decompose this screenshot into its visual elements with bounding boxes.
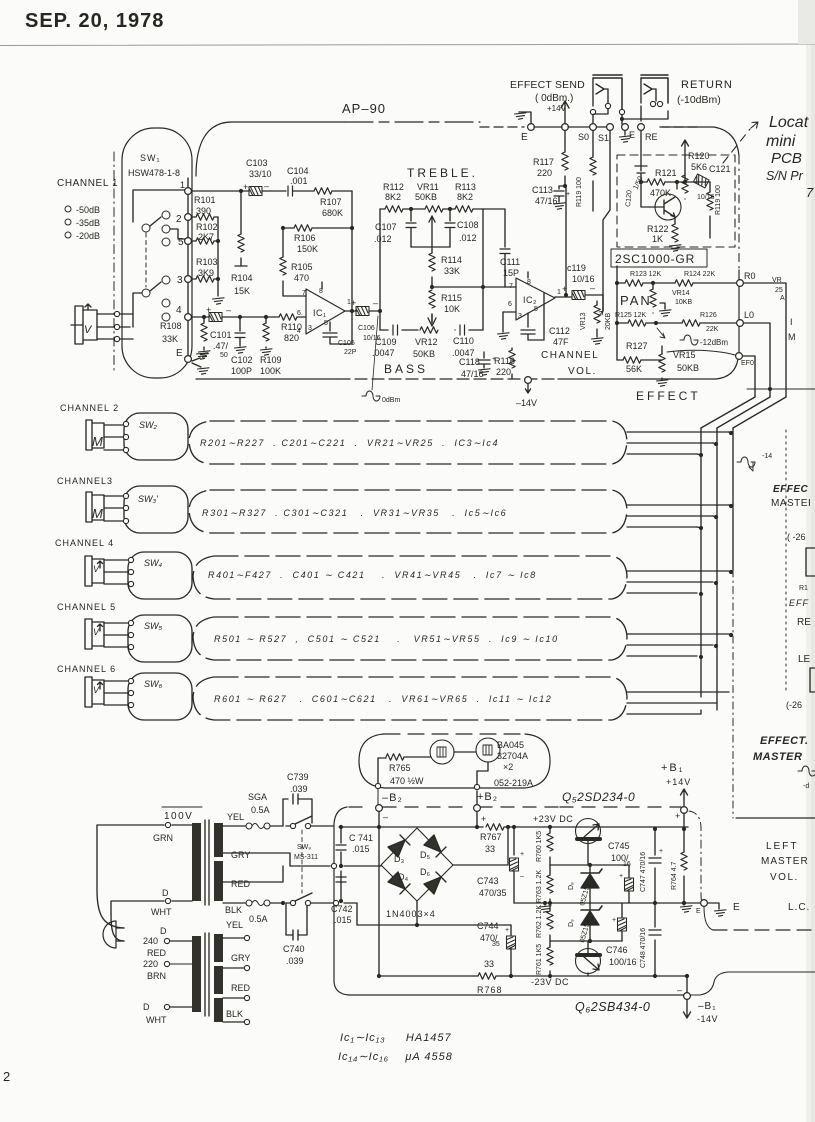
svg-text:8: 8 (527, 279, 531, 286)
R0 wire to right riser (744, 283, 786, 397)
svg-text:50KB: 50KB (415, 192, 437, 202)
svg-text:20KB: 20KB (605, 313, 612, 330)
svg-text:MASTER: MASTER (753, 751, 802, 763)
svg-text:470: 470 (294, 273, 309, 283)
svg-text:R127: R127 (626, 341, 648, 351)
power block bottom edge (349, 994, 684, 996)
svg-text:R760 1K5: R760 1K5 (536, 831, 543, 862)
transformer T2 secondary windings (214, 934, 223, 962)
svg-text:-50dB: -50dB (76, 205, 100, 215)
svg-text:R119 100: R119 100 (576, 177, 583, 207)
svg-text:4: 4 (176, 305, 182, 316)
svg-text:R120: R120 (688, 151, 710, 161)
svg-text:BRN: BRN (147, 971, 166, 981)
svg-text:2K7: 2K7 (198, 232, 214, 242)
WHT terminal (top transformer) (165, 898, 170, 903)
svg-text:15P: 15P (503, 268, 519, 278)
svg-text:CHANNEL: CHANNEL (541, 350, 599, 361)
wire C104 to R107 (293, 190, 314, 192)
riser diagonals to buses (701, 397, 786, 428)
VR15 wiper to EF0 (667, 350, 735, 355)
svg-text:C106: C106 (358, 325, 375, 332)
svg-text:V: V (93, 564, 100, 574)
svg-text:C107: C107 (375, 222, 397, 232)
svg-text:R105: R105 (291, 262, 313, 272)
svg-text:+: + (481, 814, 486, 824)
treble mid rail (411, 246, 450, 248)
breaker output wire (477, 762, 488, 804)
resistor R115 (429, 290, 435, 308)
svg-text:-d: -d (803, 783, 809, 790)
svg-text:C748 470/16: C748 470/16 (640, 928, 647, 968)
svg-text:R765: R765 (389, 763, 411, 773)
svg-text:SEP. 20, 1978: SEP. 20, 1978 (25, 10, 164, 32)
switch bank A pivot (142, 224, 150, 232)
svg-text:Ic₁₄∼Ic₁₆ μA 4558: Ic₁₄∼Ic₁₆ μA 4558 (338, 1051, 453, 1063)
0V return wire (344, 903, 511, 925)
svg-text:15K: 15K (234, 286, 250, 296)
transformer T1 primary winding (192, 823, 201, 901)
channel 2 output wires (627, 432, 729, 454)
svg-text:RED: RED (231, 879, 251, 889)
wire C103 to C104 (262, 190, 286, 192)
svg-text:R0: R0 (744, 271, 756, 281)
zener D9 (589, 903, 591, 909)
svg-text:.001: .001 (290, 176, 308, 186)
IC2 output wire (555, 295, 571, 297)
svg-text:SW₂: SW₂ (139, 420, 157, 430)
svg-text:(-26: (-26 (786, 700, 802, 710)
transformer T2 core (205, 933, 209, 1016)
svg-text:+: + (505, 927, 509, 934)
transistor Q5 (576, 819, 601, 844)
svg-text:3: 3 (308, 325, 312, 332)
svg-text:EFFEC: EFFEC (773, 484, 809, 495)
capacitor C112 (521, 293, 544, 340)
svg-text:+: + (566, 191, 570, 198)
svg-text:PAN: PAN (620, 293, 652, 308)
resistor R110 (279, 314, 297, 320)
svg-text:E: E (176, 348, 183, 359)
S1 wire down to VR13 wiper (603, 131, 610, 311)
svg-text:C120: C120 (625, 190, 633, 207)
svg-text:CHANNEL 4: CHANNEL 4 (55, 538, 114, 548)
AC plug (103, 921, 116, 948)
svg-text:V: V (93, 685, 100, 695)
svg-text:CHANNEL3: CHANNEL3 (57, 476, 113, 486)
svg-text:.039: .039 (286, 956, 304, 966)
svg-text:.015: .015 (352, 844, 370, 854)
svg-text:C110: C110 (453, 336, 474, 346)
node L0 (737, 320, 744, 327)
svg-text:4: 4 (297, 328, 301, 335)
channel 1 PCB outline bottom edge (196, 378, 338, 380)
svg-text:R117: R117 (533, 157, 554, 167)
svg-text:M: M (788, 332, 796, 342)
2SC1000 dashed enclosure (617, 155, 735, 247)
resistor R107 (314, 188, 332, 194)
svg-text:VOL.: VOL. (568, 366, 597, 377)
power block right corner (704, 907, 713, 930)
+23 rail to amp (508, 826, 688, 828)
capacitor C108 (449, 209, 451, 221)
svg-text:220: 220 (143, 959, 158, 969)
svg-text:R106: R106 (294, 233, 316, 243)
capacitor C111 (483, 209, 505, 247)
svg-text:C103: C103 (246, 158, 268, 168)
svg-text:A: A (780, 295, 785, 302)
potentiometer VR14 (652, 283, 654, 289)
bridge bottom drop (416, 901, 418, 925)
switch contact 1 wire (133, 190, 188, 222)
send jack wires down (593, 109, 622, 124)
L0 wire to right riser (744, 323, 770, 397)
+23V rail (339, 826, 483, 828)
svg-text:–: – (383, 812, 388, 822)
svg-text:220: 220 (537, 168, 552, 178)
svg-text:RED: RED (231, 983, 251, 993)
node S1 (607, 124, 614, 131)
svg-text:CHANNEL 6: CHANNEL 6 (57, 664, 116, 674)
mix bus L (716, 428, 718, 710)
plug wire to GRN (97, 825, 164, 928)
zener D8 (589, 865, 591, 873)
svg-text:3K9: 3K9 (198, 268, 214, 278)
transformer T1 secondary windings (214, 823, 223, 857)
svg-text:V: V (93, 627, 100, 637)
channel 4 block (193, 556, 627, 599)
svg-text:1K: 1K (652, 234, 663, 244)
svg-text:R401∼F427 . C401 ∼ C421 .: R401∼F427 . C401 ∼ C421 . VR41∼VR45 . Ic… (208, 570, 537, 580)
svg-text:D₃: D₃ (394, 854, 404, 864)
resistor R125 (617, 322, 628, 324)
wire C106 to tone stack (369, 310, 380, 312)
potentiometer VR13 (585, 295, 603, 311)
svg-text:+23V DC: +23V DC (533, 814, 573, 824)
svg-text:33: 33 (485, 844, 495, 854)
location note arrow (723, 129, 750, 163)
-12dBm annotation (657, 328, 665, 338)
channel 2 block (189, 421, 627, 464)
op-amp IC2 (516, 278, 555, 320)
svg-text:( -26: ( -26 (787, 532, 806, 542)
svg-text:1: 1 (557, 289, 561, 296)
svg-text:–: – (590, 283, 595, 293)
svg-text:Q₆2SB434-0: Q₆2SB434-0 (575, 1000, 650, 1014)
svg-text:+B₂: +B₂ (477, 791, 498, 803)
IC1 pin7 wire from R105 (305, 295, 307, 297)
jack tip wire to node (97, 314, 115, 339)
svg-text:C121: C121 (709, 164, 731, 174)
svg-text:CHANNEL 1: CHANNEL 1 (57, 178, 118, 189)
capacitor C109 (393, 325, 398, 335)
svg-text:R122: R122 (647, 224, 669, 234)
svg-text:–14V: –14V (516, 398, 537, 408)
channel 1 PCB outline right edge with output corner (662, 127, 739, 156)
svg-text:Locat: Locat (769, 114, 809, 131)
node E (sleeve) (622, 124, 629, 131)
svg-text:C102: C102 (231, 355, 253, 365)
channel 4 jack (85, 556, 104, 586)
svg-text:+: + (619, 873, 623, 880)
svg-text:5: 5 (178, 237, 184, 248)
Q5 emitter junction wires (550, 864, 629, 866)
svg-text:CHANNEL 2: CHANNEL 2 (60, 403, 119, 413)
svg-text:0.5A: 0.5A (251, 805, 270, 815)
node E (185, 356, 192, 363)
svg-text:240: 240 (143, 936, 158, 946)
tone stack right rail (482, 209, 484, 330)
svg-text:R115: R115 (441, 293, 462, 303)
svg-text:E: E (521, 132, 528, 143)
svg-text:R763 1.2K: R763 1.2K (536, 870, 543, 903)
node 3 (185, 276, 192, 283)
svg-text:S0: S0 (578, 132, 589, 142)
switch bank B pivot (142, 289, 150, 297)
svg-text:3: 3 (177, 275, 183, 286)
node +B1 (681, 807, 688, 814)
svg-text:R301∼R327 . C301∼C321 . VR: R301∼R327 . C301∼C321 . VR31∼VR35 . Ic5∼… (202, 508, 507, 518)
connector circles on left edge (331, 863, 336, 868)
svg-text:(-10dBm): (-10dBm) (677, 94, 721, 106)
svg-text:MS-311: MS-311 (294, 854, 318, 861)
power block top dashed rail (349, 806, 371, 808)
C741 column (340, 827, 342, 899)
svg-text:mini: mini (766, 133, 796, 150)
diode D5 (424, 835, 441, 852)
svg-text:IC₁: IC₁ (313, 308, 327, 318)
svg-text:SW₁: SW₁ (140, 153, 161, 163)
mid rail (0V) to amp (514, 902, 700, 904)
tone stack top rail (380, 208, 483, 210)
svg-text:R126: R126 (700, 312, 717, 319)
svg-text:SW₈: SW₈ (297, 844, 311, 851)
-B1 arrow (684, 1000, 691, 1018)
channel 4 output wires (627, 571, 729, 593)
resistor R126 (656, 322, 682, 324)
svg-text:C747 470/16: C747 470/16 (640, 852, 647, 892)
svg-text:C104: C104 (287, 166, 309, 176)
thermal breaker pill (384, 733, 525, 735)
channel 1 left chain boundary (113, 152, 115, 372)
bass bottom rail (380, 329, 483, 331)
channel 3 SW pill (124, 486, 188, 533)
+B1 arrow (681, 789, 688, 806)
node 1 (185, 188, 192, 195)
svg-text:VR12: VR12 (415, 337, 438, 347)
svg-text:1: 1 (180, 180, 185, 190)
-23 rail to amp (511, 975, 660, 977)
svg-text:C 741: C 741 (349, 833, 373, 843)
channel 6 output wires (627, 692, 729, 714)
plug wire to WHT (111, 901, 164, 941)
svg-text:D: D (143, 1002, 150, 1012)
svg-text:EFFECT: EFFECT (636, 389, 701, 403)
channel 6 SW pill (128, 673, 192, 720)
svg-text:5K6: 5K6 (691, 162, 707, 172)
svg-text:470/35: 470/35 (479, 888, 507, 898)
svg-text:C740: C740 (283, 944, 305, 954)
svg-text:R1: R1 (799, 585, 808, 592)
channel 3 output wires (627, 505, 729, 527)
svg-text:R113: R113 (455, 182, 476, 192)
header rule (0, 44, 815, 46)
svg-text:BLK: BLK (225, 905, 242, 915)
switch bank A contacts (162, 211, 170, 219)
mid-rail wire to C111/IC2 (432, 286, 516, 288)
svg-text:R124 22K: R124 22K (684, 271, 715, 278)
ground for attenuator bus (213, 298, 225, 304)
return tip wire (640, 106, 642, 121)
node -B1 (684, 993, 691, 1000)
svg-text:100P: 100P (231, 366, 252, 376)
input jack J1 (71, 304, 97, 344)
switch bank A blade (150, 217, 161, 226)
contact A2 wire to node 5 (170, 229, 186, 239)
breaker left drop to -B2 (375, 783, 380, 788)
svg-text:c119: c119 (567, 263, 586, 273)
svg-text:+: + (520, 851, 524, 858)
svg-text:M: M (92, 434, 103, 449)
svg-text:×2: ×2 (503, 762, 513, 772)
wires inside 2SC box (677, 175, 710, 182)
node 4 (185, 314, 192, 321)
svg-text:RED: RED (147, 948, 167, 958)
C747 capacitor (654, 829, 656, 903)
dashed boundary right of RE (660, 126, 700, 128)
svg-text:VOL.: VOL. (770, 872, 799, 883)
R763 resistor (549, 865, 551, 875)
-23 rail to -B1 (660, 976, 687, 992)
svg-text:C105: C105 (338, 340, 355, 347)
svg-text:47/16: 47/16 (461, 369, 484, 379)
svg-text:-14: -14 (762, 453, 772, 460)
attenuator junction bus (217, 217, 219, 296)
svg-text:–: – (373, 298, 378, 308)
capacitor C107 (410, 209, 412, 221)
bottom right boundary step (690, 972, 815, 995)
-14V arrow (526, 384, 531, 393)
bridge right vertex wire (453, 827, 508, 865)
channel 5 SW pill (128, 615, 192, 662)
svg-text:0dBm: 0dBm (382, 397, 400, 404)
resistor R105 (282, 228, 284, 257)
svg-text:32704A: 32704A (497, 751, 528, 761)
transistor Q1 2SC1000 (655, 194, 681, 220)
svg-text:8K2: 8K2 (385, 192, 401, 202)
svg-text:50: 50 (220, 352, 228, 359)
resistor R108 (to ground) (203, 317, 205, 323)
channel 5 jack (85, 619, 104, 649)
svg-text:+B₁: +B₁ (661, 762, 684, 774)
IC2 input wire (504, 231, 506, 233)
svg-text:IC₂: IC₂ (523, 295, 537, 305)
svg-text:I: I (790, 317, 793, 327)
svg-text:10KB: 10KB (675, 299, 692, 306)
node EF0 (736, 353, 743, 360)
svg-text:R119 100: R119 100 (715, 185, 722, 215)
svg-text:470 ½W: 470 ½W (390, 776, 424, 786)
svg-text:R109: R109 (260, 355, 282, 365)
svg-text:S/N Pr: S/N Pr (766, 169, 804, 183)
svg-text:33K: 33K (162, 334, 178, 344)
gain legend -50dB (65, 206, 71, 212)
node 5 (185, 238, 192, 245)
svg-text:D₄: D₄ (398, 872, 408, 882)
svg-text:SW₆: SW₆ (144, 679, 162, 689)
VR11 wiper arrow (429, 216, 435, 247)
svg-text:100K: 100K (260, 366, 281, 376)
IC2 pin8 stub (527, 272, 529, 278)
svg-text:47F: 47F (553, 337, 569, 347)
svg-text:33K: 33K (444, 266, 460, 276)
resistor R119b vertical (592, 131, 594, 157)
channel 2 SW pill (124, 413, 188, 460)
svg-text:Q₅2SD234-0: Q₅2SD234-0 (562, 790, 635, 804)
C743 column (513, 827, 515, 903)
wire node1 row (192, 190, 249, 192)
R767 resistor (482, 826, 484, 828)
svg-text:C112: C112 (549, 326, 570, 336)
svg-text:-20dB: -20dB (76, 231, 100, 241)
svg-text:C118: C118 (459, 357, 480, 367)
svg-text:R104: R104 (231, 273, 253, 283)
wire C101 to junctions (222, 316, 279, 318)
switch SW8 gang link (301, 830, 303, 893)
svg-text:35: 35 (492, 941, 500, 948)
diode D3 (388, 840, 405, 857)
svg-text:EFFECT.: EFFECT. (760, 735, 809, 747)
svg-text:50KB: 50KB (677, 363, 699, 373)
R764 resistor (683, 829, 685, 852)
svg-text:VR13: VR13 (580, 312, 587, 330)
svg-text:–: – (677, 985, 682, 995)
svg-text:C108: C108 (457, 220, 479, 230)
svg-text:RE: RE (645, 132, 658, 142)
op-amp IC1 (306, 289, 345, 334)
0dBm annotation (362, 391, 380, 401)
svg-text:SGA: SGA (248, 792, 267, 802)
resistor R109 (to ground) (264, 315, 268, 319)
capacitor C105 (323, 312, 352, 344)
svg-text:25: 25 (775, 287, 783, 294)
svg-text:R201∼R227 . C201∼C221 . VR2: R201∼R227 . C201∼C221 . VR21∼VR25 . IC3∼… (200, 438, 499, 448)
svg-text:CHANNEL 5: CHANNEL 5 (57, 602, 116, 612)
svg-text:3: 3 (518, 313, 522, 320)
svg-text:SW₄: SW₄ (144, 558, 162, 568)
svg-text:( 0dBm.): ( 0dBm.) (535, 93, 573, 104)
svg-text:SW₃': SW₃' (138, 494, 158, 504)
svg-text:D: D (162, 888, 169, 898)
R762 resistor (549, 903, 551, 911)
svg-text:R114: R114 (441, 255, 462, 265)
power block outline left edge (334, 807, 349, 995)
master feed wire (747, 388, 815, 390)
svg-text:+: + (243, 182, 248, 192)
bridge rectifier outline (381, 828, 453, 901)
svg-text:WHT: WHT (146, 1015, 167, 1025)
svg-text:D: D (160, 926, 167, 936)
svg-text:VR14: VR14 (672, 290, 690, 297)
svg-text:R107: R107 (320, 197, 342, 207)
svg-text:E: E (733, 902, 740, 913)
svg-text:YEL: YEL (227, 812, 244, 822)
svg-text:C109: C109 (375, 337, 397, 347)
C748 capacitor (654, 903, 656, 976)
bank B lower wire (133, 293, 142, 327)
svg-text:MASTER: MASTER (761, 856, 809, 867)
svg-text:EF0: EF0 (741, 360, 754, 367)
